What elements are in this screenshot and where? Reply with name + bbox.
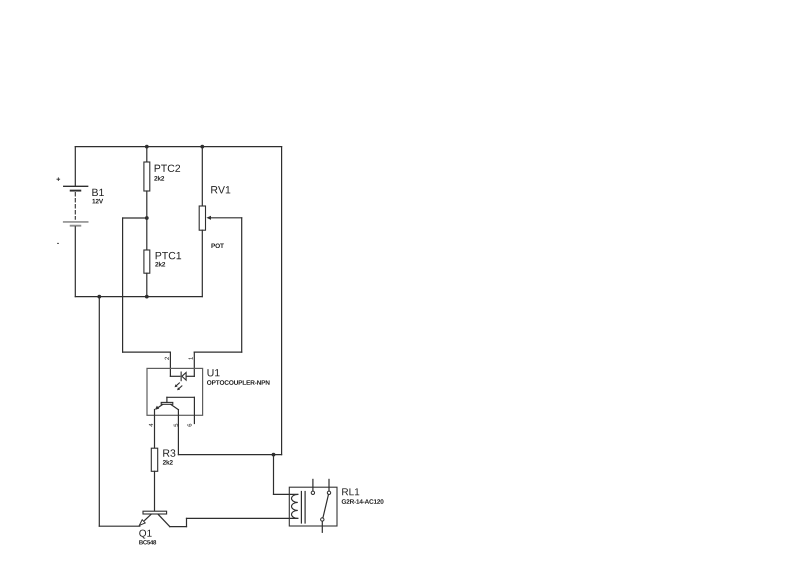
wire R3 to Q1 base — [154, 471, 156, 511]
wire wiper drop — [241, 218, 243, 352]
label Q1 — [139, 530, 151, 539]
pin number 1 — [189, 357, 193, 360]
optocoupler U1 body — [147, 368, 203, 415]
wire emitter to left — [99, 525, 140, 527]
wire left branch rail — [98, 297, 100, 527]
label U1 — [208, 369, 220, 376]
wire relay coil drop — [273, 455, 275, 495]
value OPTOCOUPLER-NPN — [207, 380, 270, 385]
light arrows — [175, 383, 182, 390]
label B1 — [92, 189, 103, 196]
wire pin 4 down to R3 — [154, 410, 156, 449]
wire RV1 bottom — [201, 230, 203, 296]
node top RV1 — [200, 145, 204, 149]
pin number 2 — [165, 357, 169, 360]
relay contact pole — [311, 491, 314, 494]
value 12V — [92, 199, 103, 204]
wire collector lower run — [170, 526, 187, 528]
wire right rail — [281, 147, 283, 455]
wire coil top entry — [274, 493, 298, 495]
label RV1 — [211, 186, 230, 193]
resistor R3 — [151, 448, 157, 471]
value BC548 — [139, 540, 156, 544]
battery B1 — [64, 186, 88, 225]
label PTC2 — [155, 165, 180, 172]
wire over to pin 2 — [123, 351, 171, 353]
relay switch arm — [323, 494, 329, 518]
relay contact common — [321, 518, 324, 521]
value 2k2 (PTC1) — [155, 262, 165, 267]
node bottom left branch — [97, 295, 101, 299]
relay pin stub pole — [312, 479, 314, 491]
value 2k2 (R3) — [163, 460, 173, 465]
wire top bus — [75, 146, 281, 148]
pin number 6 — [187, 424, 191, 427]
wire PTC1 bottom — [146, 273, 148, 296]
wire pin 5 to right rail — [178, 454, 281, 456]
phototransistor inside U1 — [155, 397, 195, 409]
pin number 5 — [174, 424, 178, 427]
value POT — [211, 243, 223, 248]
node PTC divider — [145, 216, 149, 220]
potentiometer RV1 — [199, 206, 211, 230]
wire collector to relay coil — [187, 517, 298, 519]
wire PTC2 top stub — [146, 147, 148, 162]
wire pin 5 down — [177, 410, 179, 455]
wire pin 6 stub — [193, 397, 195, 423]
resistor PTC2 — [144, 162, 150, 191]
wire bottom bus — [75, 296, 202, 298]
resistor PTC1 — [144, 250, 150, 273]
wire over to pin 1 — [194, 351, 241, 353]
label PTC1 — [156, 252, 181, 259]
label R3 — [163, 449, 175, 456]
relay pin stub bottom — [321, 521, 323, 532]
node relay branch — [272, 453, 276, 457]
wire left drop to opto — [122, 218, 124, 352]
relay contact NO — [327, 491, 330, 494]
battery plus marking — [57, 177, 61, 181]
node top PTC2 — [145, 145, 149, 149]
LED inside U1 — [170, 372, 194, 380]
transistor Q1 — [139, 511, 170, 526]
wire PTC1 top — [146, 218, 148, 250]
wire RV1 top — [201, 147, 203, 206]
wire pin 2 down — [169, 352, 171, 376]
relay RL1 coil and core — [289, 487, 337, 526]
pin number 4 — [149, 424, 153, 427]
battery minus marking — [57, 242, 59, 245]
wire left rail upper — [74, 147, 76, 187]
relay pin stub NO — [328, 479, 330, 491]
wire collector step — [186, 518, 188, 526]
wire left rail lower — [74, 227, 76, 297]
wire pin 1 down — [193, 352, 195, 376]
wire node to left — [123, 217, 147, 219]
wire wiper — [211, 217, 242, 219]
label RL1 — [342, 488, 359, 495]
value 2k2 (PTC2) — [154, 176, 164, 181]
node bottom PTC1 — [145, 295, 149, 299]
value G2R-14-AC120 — [342, 499, 384, 504]
wire PTC2 bottom — [146, 191, 148, 218]
